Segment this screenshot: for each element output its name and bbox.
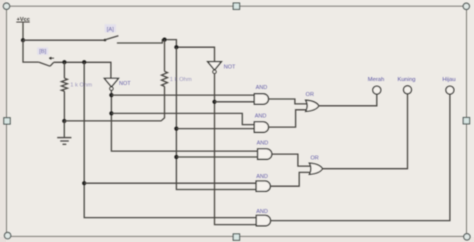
wire NOT1 to AND1	[111, 94, 254, 96]
wire NOT1 to AND2	[111, 113, 254, 124]
gate OR1	[306, 92, 319, 111]
ground	[57, 121, 71, 144]
svg-text:AND: AND	[257, 140, 269, 146]
terminal Hijau	[442, 77, 455, 94]
wire NOT1 output feeder	[111, 90, 257, 151]
wire NOT2 to AND1	[215, 101, 255, 103]
gate OR2	[309, 156, 322, 175]
wire row B right	[54, 62, 111, 78]
svg-text:Kuning: Kuning	[397, 77, 415, 83]
svg-text:[A]: [A]	[107, 27, 114, 33]
wire AND3 out	[272, 154, 312, 166]
resistor R2 1 k Ohm	[161, 40, 192, 121]
power +Vcc	[16, 17, 30, 23]
wire row B	[23, 40, 39, 62]
wire AND5 out to Hijau	[271, 94, 450, 220]
node A1	[162, 38, 166, 42]
gate AND2	[254, 114, 268, 133]
svg-text:1 k Ohm: 1 k Ohm	[70, 83, 92, 89]
svg-text:1 k Ohm: 1 k Ohm	[170, 77, 192, 83]
node B1	[62, 60, 66, 64]
handle top-mid	[233, 3, 239, 9]
handle bottom-right	[464, 234, 470, 240]
svg-text:NOT: NOT	[119, 81, 131, 87]
svg-text:AND: AND	[256, 174, 268, 180]
wire OR2 out to Kuning	[323, 94, 408, 169]
wire Q feeder	[176, 47, 256, 189]
wire Vcc down	[22, 23, 24, 41]
svg-text:[B]: [B]	[39, 49, 46, 55]
handle bottom-mid	[233, 234, 239, 240]
switch SW-B	[37, 47, 54, 66]
node A2	[174, 45, 178, 49]
wire OR1 out to Merah	[319, 94, 377, 106]
svg-text:Hijau: Hijau	[442, 77, 455, 83]
svg-text:OR: OR	[310, 156, 318, 162]
wire Q to AND3	[176, 156, 257, 158]
svg-text:Merah: Merah	[368, 77, 384, 83]
gate AND1	[254, 85, 268, 104]
wire AND4 out	[270, 172, 312, 186]
wire NOT2 output feeder	[215, 74, 257, 225]
inverter U2 NOT	[208, 62, 236, 74]
handle top-right	[463, 3, 469, 9]
svg-text:AND: AND	[255, 114, 267, 120]
wire Q to AND2	[176, 128, 254, 130]
resistor R1 1 k Ohm	[61, 62, 92, 121]
node Vcc junction	[21, 38, 25, 42]
handle left-mid	[4, 118, 10, 124]
terminal Merah	[368, 77, 384, 94]
node N1a	[109, 93, 113, 97]
node Q1	[174, 127, 178, 131]
handle bottom-left	[4, 232, 10, 238]
terminal Kuning	[397, 77, 415, 94]
node B3	[82, 181, 86, 185]
wire row A	[23, 39, 104, 41]
wire switch A to node	[117, 40, 215, 62]
handle top-left	[3, 3, 9, 9]
gate AND5	[256, 209, 270, 226]
handle right-mid	[463, 118, 469, 124]
inverter U1 NOT	[104, 78, 131, 90]
svg-text:AND: AND	[256, 85, 268, 91]
node ground junction	[62, 119, 66, 123]
wire B feeder	[84, 62, 256, 217]
node N1b	[109, 111, 113, 115]
wire B to AND4	[84, 182, 256, 184]
wire ground bus	[64, 120, 161, 122]
wire AND1 out	[269, 99, 309, 104]
wire AND2 out	[269, 110, 309, 127]
switch SW-A	[104, 24, 119, 41]
node Q2	[174, 155, 178, 159]
svg-text:NOT: NOT	[224, 65, 236, 71]
gate AND4	[256, 174, 270, 191]
node B2	[82, 60, 86, 64]
node N2a	[212, 100, 216, 104]
svg-text:OR: OR	[306, 92, 314, 98]
gate AND3	[257, 140, 272, 159]
svg-text:AND: AND	[256, 209, 268, 215]
